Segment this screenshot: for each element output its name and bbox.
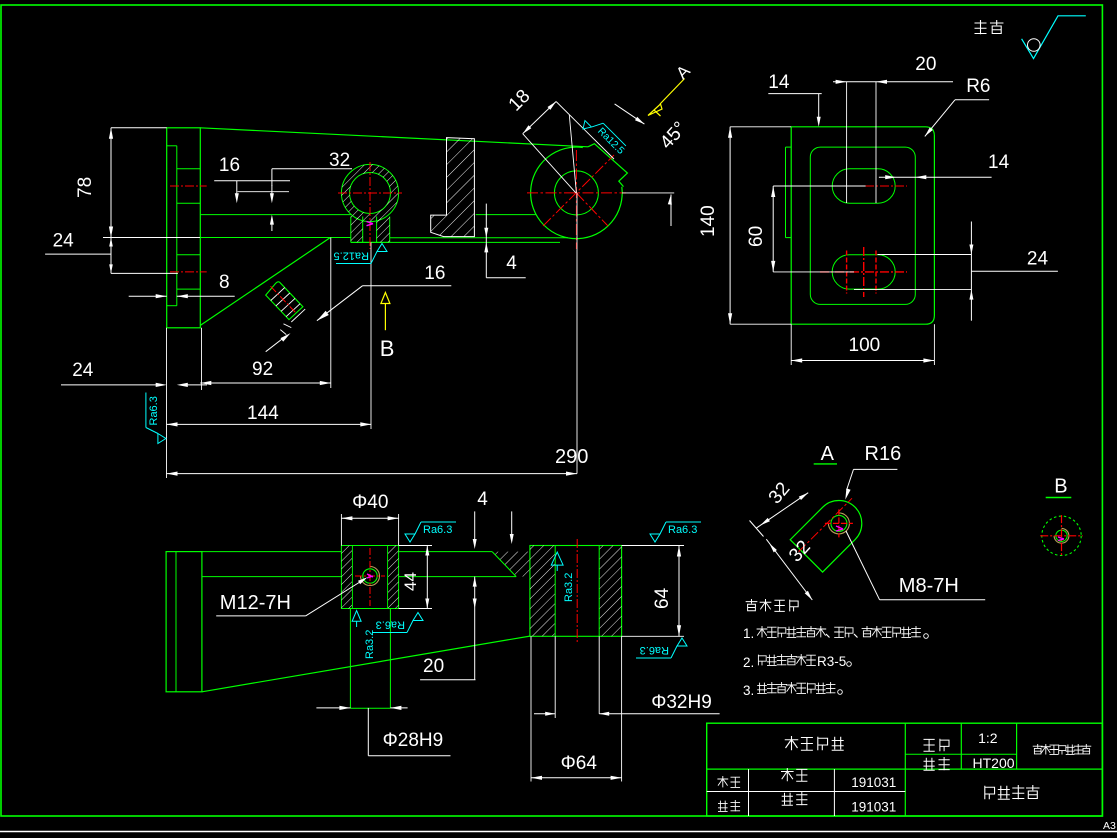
svg-text:Ra6.3: Ra6.3: [423, 524, 452, 536]
svg-text:16: 16: [424, 263, 445, 284]
svg-text:4: 4: [506, 253, 517, 274]
svg-text:A: A: [821, 443, 835, 465]
svg-text:Ra6.3: Ra6.3: [640, 644, 669, 656]
phi40 boss section: [341, 546, 398, 609]
main view: mounting plate: [167, 128, 201, 328]
svg-text:20: 20: [423, 656, 444, 677]
slot 2: [832, 255, 895, 289]
Ra3.2 left: [352, 611, 361, 627]
svg-text:191031: 191031: [851, 775, 896, 790]
svg-text:Ra6.3: Ra6.3: [148, 396, 160, 425]
Ra12.5 on lug: [580, 113, 628, 161]
svg-text:14: 14: [988, 152, 1010, 173]
svg-text:R16: R16: [865, 443, 902, 465]
svg-text:60: 60: [746, 226, 767, 247]
45deg lug edge-on: [588, 144, 627, 187]
detail A hole: [831, 515, 847, 531]
svg-text:140: 140: [698, 205, 719, 237]
bottom view: arm lines: [202, 551, 342, 553]
M12 hole: [363, 569, 377, 583]
bottom view: diagonal: [202, 636, 530, 692]
main view: arm horizontal lines: [200, 214, 350, 216]
svg-text:32: 32: [329, 150, 350, 171]
svg-text:B: B: [380, 336, 395, 361]
svg-text:290: 290: [555, 446, 588, 468]
tech requirements: [746, 599, 758, 611]
svg-text:100: 100: [849, 335, 881, 356]
45deg angular dim: [622, 192, 674, 194]
title block: [707, 723, 1103, 816]
svg-text:Ra12.5: Ra12.5: [334, 250, 369, 262]
svg-text:4: 4: [477, 489, 488, 510]
phi64 cylinder boss: [531, 147, 623, 239]
Ra6.3 right top: [650, 522, 701, 542]
svg-text:2.: 2.: [743, 655, 754, 670]
bottom view: plate block: [166, 552, 202, 692]
svg-text:Ra3.2: Ra3.2: [563, 573, 575, 602]
svg-text:144: 144: [247, 403, 279, 424]
svg-text:64: 64: [652, 587, 673, 609]
Ra6.3 right bottom inverted: [636, 638, 687, 658]
svg-text:24: 24: [72, 360, 94, 381]
title text: [785, 736, 799, 750]
phi64 boss section: [530, 546, 622, 637]
svg-text:24: 24: [53, 231, 75, 252]
svg-text:3.: 3.: [743, 683, 754, 698]
slot 1: [832, 169, 895, 203]
svg-text:92: 92: [252, 359, 273, 380]
svg-text:M12-7H: M12-7H: [220, 592, 291, 614]
Ra6.3 rotated left bottom: [146, 393, 166, 444]
svg-text:1.: 1.: [743, 626, 754, 641]
boss ring hatch: [341, 164, 398, 221]
sectioned rib band with hatch: [431, 138, 475, 237]
svg-text:14: 14: [768, 72, 790, 93]
view A yellow arrow: [660, 79, 685, 105]
slanted M8 boss: [266, 282, 303, 320]
right view: inner rounded rect: [810, 147, 915, 304]
svg-text:1:2: 1:2: [978, 730, 998, 746]
boss centerline: [369, 162, 371, 249]
svg-text:R3-5: R3-5: [817, 654, 846, 669]
boss crosshair centerlines: [527, 192, 626, 194]
svg-text:78: 78: [75, 177, 96, 198]
B direction arrow: [384, 303, 386, 330]
M8 boss end-face lines + arrows: [291, 309, 305, 322]
phi28 lower boss: [349, 609, 351, 709]
svg-text:24: 24: [1027, 249, 1049, 270]
extension lines: [166, 328, 168, 478]
qiyu surface note: [975, 20, 987, 34]
boss stem: [350, 217, 352, 243]
svg-text:Ra3.2: Ra3.2: [364, 630, 376, 659]
svg-text:Φ64: Φ64: [561, 753, 598, 774]
svg-text:8: 8: [219, 272, 230, 293]
Ra3.2 in bore: [551, 552, 563, 571]
Ra6.3 inverted below boss: [372, 613, 423, 633]
rib wedge bottom view: [492, 552, 530, 577]
middle boss circle (phi40/32): [341, 164, 398, 221]
detail B circles: [1042, 516, 1081, 555]
svg-text:Ra6.3: Ra6.3: [668, 524, 697, 536]
svg-text:Ra6.3: Ra6.3: [376, 619, 405, 631]
svg-text:Φ28H9: Φ28H9: [383, 730, 444, 751]
svg-text:20: 20: [915, 54, 936, 75]
detail A lug: [790, 501, 862, 573]
dim 78: [111, 127, 167, 129]
svg-text:16: 16: [219, 155, 240, 176]
Ra12.5 inverted under stem: [334, 244, 387, 264]
svg-text:A3: A3: [1103, 820, 1116, 832]
svg-text:HT200: HT200: [973, 755, 1015, 771]
svg-text:M8-7H: M8-7H: [899, 575, 959, 597]
svg-text:Φ32H9: Φ32H9: [651, 692, 712, 713]
svg-text:Φ40: Φ40: [352, 492, 388, 513]
plate slot centerlines: [170, 185, 207, 187]
svg-text:44: 44: [401, 572, 420, 591]
svg-text:191031: 191031: [851, 800, 896, 815]
rib diagonal: [200, 238, 330, 326]
right view: outer plate: [791, 127, 934, 324]
main view: arm top edge: [200, 128, 588, 147]
svg-text:B: B: [1054, 476, 1067, 498]
Ra6.3 top of phi40: [405, 522, 456, 542]
svg-text:R6: R6: [966, 76, 990, 97]
